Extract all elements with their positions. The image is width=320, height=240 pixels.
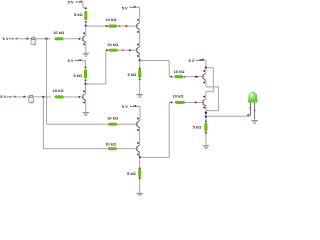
pin dot QB emitter: [83, 101, 85, 103]
resistor R8 10k N2 to Q3a value label: [174, 69, 186, 74]
wire Q1 collector to NA: [85, 26, 87, 35]
wire R3 to node NB: [85, 81, 87, 84]
wire junction A down to row C: [47, 39, 108, 124]
wire Q2b emitter to node N2: [139, 54, 141, 60]
ground stage 3: [203, 146, 210, 149]
resistor R11 5k pull-down N4: [139, 169, 141, 177]
resistor R10 10k row D value label: [105, 142, 117, 147]
resistor R12 10k N4 to Q3b value label: [173, 93, 185, 98]
pushbutton S2 input B: [29, 95, 34, 103]
pin dot R5 left: [105, 25, 107, 27]
pin dot R6 left: [106, 49, 108, 51]
wire R12 to Q3b base: [184, 101, 203, 103]
wire QB emitter to ground: [85, 101, 87, 112]
power source 5V supply V4: [122, 104, 137, 109]
pin dot R6 right: [122, 49, 124, 51]
resistor R8 10k N2 to Q3a: [174, 76, 183, 78]
transistor Q8 Q3b: [203, 99, 206, 107]
svg-text:5 kΩ: 5 kΩ: [128, 72, 138, 77]
wire button S2 to junction: [33, 96, 43, 98]
wire Q2a emitter to Q2b collector: [139, 30, 141, 46]
pin dot R12 left: [170, 101, 172, 103]
LED D1 green: [248, 92, 257, 119]
svg-text:10 kΩ: 10 kΩ: [53, 88, 65, 93]
pin dot Q3b base wire: [195, 101, 197, 103]
output node dot 1: [205, 112, 207, 114]
pin dot R7 bottom: [139, 78, 141, 80]
resistor R1 5k pull-up stage A value label: [74, 12, 84, 17]
wire R8 to Q3a base: [183, 76, 203, 78]
wire R4 to QB base: [64, 96, 84, 98]
pin dot Q1 emitter: [83, 43, 85, 45]
resistor R3 5k pull-up stage B: [84, 70, 86, 79]
wire R1 to node NA: [85, 23, 87, 26]
svg-text:10 kΩ: 10 kΩ: [105, 142, 117, 147]
wire Q3a emitter detour to output: [206, 81, 219, 111]
resistor R2 10k input A: [55, 38, 64, 40]
svg-text:5 V: 5 V: [68, 58, 74, 63]
resistor R1 5k pull-up stage A: [85, 11, 87, 20]
label 5V input B: [0, 94, 6, 99]
resistor R6 10k NB to Q2b value label: [107, 42, 119, 47]
pin dot Q4a emitter: [137, 129, 139, 131]
wire input A to button S1: [15, 38, 31, 40]
wire V4 to Q4a collector: [136, 106, 140, 120]
wire NA to R5: [86, 25, 109, 27]
pin dot Q1 collector: [83, 32, 85, 34]
junction V3 node: [205, 67, 207, 69]
svg-text:5 V: 5 V: [3, 36, 9, 41]
pin dot R1 top: [85, 7, 87, 9]
transistor Q7 Q3a: [203, 73, 206, 81]
pin dot Q4b collector: [137, 142, 139, 144]
pin dot Q3b collector: [203, 96, 205, 98]
wire V3 to junction: [202, 60, 206, 67]
arrow input B: [8, 96, 12, 98]
pin dot R3 bottom: [85, 79, 87, 81]
svg-text:10 kΩ: 10 kΩ: [107, 42, 119, 47]
ground stage A: [83, 53, 90, 56]
pin dot Q3a emitter: [203, 81, 205, 83]
pin dot Q3a base wire2: [196, 76, 198, 78]
svg-text:10 kΩ: 10 kΩ: [106, 17, 118, 22]
resistor R3 5k pull-up stage B value label: [74, 73, 84, 78]
junction input A: [45, 38, 47, 40]
wire junction A to R2: [47, 38, 51, 40]
wire N4 down to R11: [139, 157, 141, 168]
node NB junction: [84, 83, 86, 85]
pin dot Q2a emitter: [137, 31, 139, 33]
wire V3 node to Q3a collector: [205, 68, 207, 73]
pin dot Q1 base: [78, 38, 80, 40]
resistor R4 10k input B: [55, 96, 64, 98]
junction input B: [42, 96, 44, 98]
resistor R12 10k N4 to Q3b: [175, 101, 184, 103]
node N2 junction: [139, 59, 141, 61]
wire V3 node to Q3b collector detour: [206, 68, 213, 99]
svg-text:10 kΩ: 10 kΩ: [174, 69, 186, 74]
ground stage 2: [136, 94, 143, 97]
svg-text:5 V: 5 V: [122, 104, 128, 109]
wire VB to R3: [81, 60, 86, 66]
ground stage 4: [136, 193, 143, 196]
wire N2 down to R7: [139, 60, 141, 68]
pin dot R5 right: [119, 25, 121, 27]
pin dot wire B: [23, 96, 25, 98]
transistor Q1 stage A: [83, 35, 86, 43]
ground stage B: [83, 113, 90, 116]
resistor R5 10k NA to Q2a value label: [106, 17, 118, 22]
svg-text:10 kΩ: 10 kΩ: [53, 30, 65, 35]
svg-text:10 kΩ: 10 kΩ: [107, 116, 119, 121]
wire N2 to R8: [140, 60, 173, 76]
pin dot R1 bottom: [85, 21, 87, 23]
power source 5V supply VA: [68, 0, 83, 5]
wire Q1 emitter to ground: [85, 43, 87, 53]
wire VA to R1: [82, 2, 86, 9]
svg-text:5 kΩ: 5 kΩ: [74, 12, 84, 17]
transistor Q4 Q2b: [137, 46, 140, 54]
pushbutton S1 input A: [31, 37, 36, 45]
wire R13 to ground: [205, 133, 207, 145]
wire R9 to Q4a base: [117, 123, 137, 125]
resistor R6 10k NB to Q2b: [109, 49, 118, 51]
resistor R7 5k pull-down N2: [139, 69, 141, 77]
pin dot R11 bottom: [139, 177, 141, 179]
pin dot R13 top: [205, 120, 207, 122]
wire R7 to ground: [139, 80, 141, 94]
wire junction B to R4: [43, 96, 50, 98]
node NA junction: [85, 25, 87, 27]
wire R2 to Q1 base: [63, 38, 83, 40]
wire R10 to Q4b base: [117, 148, 137, 150]
power source 5V supply VB: [68, 58, 82, 63]
pin dot Q2b emitter: [137, 55, 139, 57]
transistor Q3 Q2a: [137, 22, 140, 30]
pin dot R13 bottom: [205, 132, 207, 134]
wire Q4b emitter to node N4: [139, 153, 141, 158]
wire junction B down to row D: [43, 97, 107, 149]
wire button S1 to junction: [36, 38, 47, 40]
pin dot Q2b collector: [137, 44, 139, 46]
node N4 junction: [139, 156, 141, 158]
pin dot R8 right: [183, 76, 185, 78]
resistor R7 5k pull-down N2 value label: [128, 72, 138, 77]
svg-text:5 kΩ: 5 kΩ: [193, 124, 203, 129]
pin dot QB collector: [83, 90, 85, 92]
resistor R13 5k pull-down output: [205, 123, 207, 132]
resistor R4 10k input B value label: [53, 88, 65, 93]
pin dot V3 wire: [202, 59, 204, 61]
pin dot Q3a collector: [203, 70, 205, 72]
pin dot R11 top: [139, 167, 141, 169]
wire NB to R6: [86, 50, 110, 84]
ground LED: [251, 120, 258, 123]
pin dot Q2b base wire: [129, 49, 131, 51]
pin dot Q3b emitter: [203, 107, 205, 109]
wire N4 to R12: [140, 102, 174, 157]
power source 5V supply V3: [189, 58, 203, 63]
svg-text:5 V: 5 V: [0, 94, 6, 99]
pin dot R8 left: [171, 76, 173, 78]
output node dot 2: [205, 115, 207, 117]
pin dot Q2a base wire: [125, 25, 127, 27]
resistor R5 10k NA to Q2a: [108, 25, 117, 27]
wire R6 to Q2b base: [118, 49, 137, 51]
svg-text:5 kΩ: 5 kΩ: [74, 73, 84, 78]
svg-text:5 V: 5 V: [68, 0, 74, 5]
pin dot R12 right: [183, 101, 185, 103]
wire output node to LED: [206, 103, 251, 117]
resistor R2 10k input A value label: [53, 30, 65, 35]
pin dot Q2a collector: [137, 19, 139, 21]
transistor Q5 Q4a: [137, 120, 140, 128]
power source 5V supply V2: [122, 5, 136, 10]
resistor R11 5k pull-down N4 value label: [127, 171, 137, 176]
pin dot input A arrow: [16, 38, 18, 40]
arrow input A: [10, 38, 14, 40]
transistor Q2 stage B: [83, 93, 86, 101]
resistor R9 10k row C: [108, 123, 117, 125]
pin dot input B arrow: [14, 96, 16, 98]
transistor Q6 Q4b: [137, 145, 140, 153]
svg-text:10 kΩ: 10 kΩ: [173, 93, 185, 98]
pin dot LED anode: [247, 114, 249, 116]
wire QB collector to NB: [85, 84, 87, 93]
pin dot QB base: [78, 96, 80, 98]
resistor R10 10k row D: [108, 148, 117, 150]
svg-text:5 kΩ: 5 kΩ: [127, 171, 137, 176]
pin dot R3 top: [85, 67, 87, 69]
label 5V input A: [3, 36, 9, 41]
svg-text:5 V: 5 V: [189, 58, 195, 63]
pin dot Q3a base wire: [195, 76, 197, 78]
pin dot R7 top: [139, 68, 141, 70]
svg-text:5 V: 5 V: [122, 5, 128, 10]
wire input B to button S2: [13, 96, 29, 98]
wire Q4a emitter to Q4b collector: [139, 128, 141, 145]
wire R5 to Q2a base: [117, 25, 137, 27]
wire Q3b emitter to output node: [205, 106, 207, 123]
resistor R13 5k pull-down output value label: [193, 124, 203, 129]
wire R11 to ground: [139, 179, 141, 193]
pin dot Q4a collector: [137, 118, 139, 120]
resistor R9 10k row C value label: [107, 116, 119, 121]
pin dot Q4b emitter: [137, 154, 139, 156]
pin dot wire A: [26, 38, 28, 40]
wire V2 to Q2a collector: [136, 7, 140, 22]
